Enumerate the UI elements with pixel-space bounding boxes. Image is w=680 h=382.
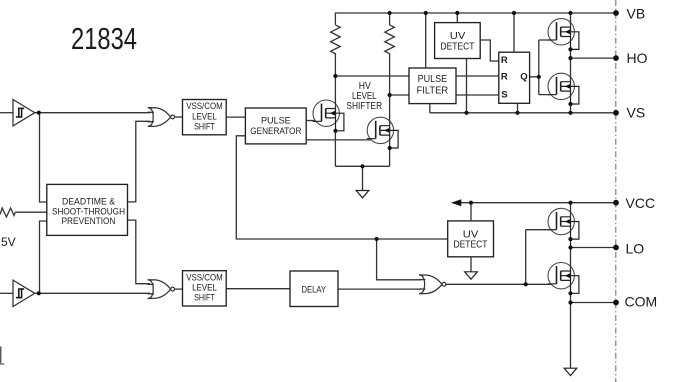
- svg-text:LO: LO: [626, 240, 645, 256]
- wire: 5V resistor to deadtime block: [15, 211, 47, 213]
- resistor R1 (HV level shift load 1): [331, 25, 341, 76]
- wire: Q6 source to COM rail: [570, 293, 572, 302]
- wire: Q4 source to VS rail: [570, 104, 572, 113]
- NOR gate G1: [148, 108, 175, 127]
- wire: VB rail: [335, 13, 616, 25]
- svg-text:21834: 21834: [71, 22, 137, 56]
- ground arrow (HV shifter VSS return): [356, 191, 369, 198]
- wire: U1 output down to deadtime block: [40, 113, 47, 202]
- wire: R2 junction to pulse filter: [390, 94, 409, 96]
- VSS/COM level shift block 1: [183, 100, 227, 135]
- pulse generator block: [245, 108, 306, 144]
- wire: DELAY to NOR G3 input B: [338, 288, 421, 290]
- wire: HO rail: [571, 57, 617, 59]
- node: VCC at UV detect 2: [469, 201, 473, 205]
- node: latch Q split: [537, 75, 541, 79]
- transistor Q1 (HV level shift left): [313, 100, 344, 133]
- node: U2 output junction: [37, 291, 41, 295]
- wire: pulse generator feedback to UV detect 2: [236, 136, 447, 239]
- wire: VB rail to pulse filter top: [425, 13, 427, 68]
- wire: pulse filter to latch S: [456, 94, 499, 96]
- node: R2 drain junction: [388, 93, 392, 97]
- svg-text:PREVENTION: PREVENTION: [62, 216, 116, 226]
- svg-text:SHIFT: SHIFT: [194, 293, 215, 304]
- node: feedback junction to G3: [375, 237, 379, 241]
- node: VS at latch: [515, 111, 519, 115]
- wire: HV shifter common rail: [335, 165, 389, 167]
- wire: VS rail: [430, 112, 616, 114]
- ground arrow (UV detect 2 return): [465, 272, 478, 279]
- node: VB rail at UV detect 1: [455, 11, 459, 15]
- svg-text:R: R: [501, 55, 508, 66]
- node: R1 drain junction: [333, 74, 337, 78]
- node: VB rail at R2: [388, 11, 392, 15]
- wire: latch bottom to VS rail: [517, 103, 519, 113]
- svg-text:Q: Q: [520, 71, 527, 82]
- node: VB rail at pulse filter: [424, 11, 428, 15]
- wire: COM rail: [571, 302, 617, 304]
- transistor Q6 (low-side pull-down): [548, 263, 579, 296]
- wire: HIN input to buffer U1: [0, 112, 13, 114]
- wire: LIN input to buffer U2: [0, 292, 13, 294]
- svg-text:HO: HO: [627, 50, 648, 66]
- node: VS at Q4 source: [568, 111, 572, 115]
- wire: Q1 source down to shifter common: [334, 131, 336, 167]
- wire: Q2 source down to shifter common: [389, 148, 391, 166]
- svg-text:DELAY: DELAY: [302, 285, 327, 296]
- pulse filter block: [409, 68, 456, 104]
- transistor Q3 (high-side pull-up): [548, 19, 579, 52]
- wire: VCC rail to UV detect 2 top: [470, 203, 472, 221]
- VSS/COM level shift block 2: [183, 271, 227, 306]
- wire: Q5 source to LO rail: [570, 239, 572, 247]
- transistor Q4 (high-side pull-down): [548, 73, 579, 106]
- wire: Q3 drain to VB rail: [570, 13, 572, 27]
- svg-text:PULSE: PULSE: [261, 115, 291, 126]
- wire: R1 junction to pulse filter: [335, 75, 409, 77]
- transistor Q2 (HV level shift right): [367, 117, 398, 150]
- svg-text:PULSE: PULSE: [418, 74, 448, 85]
- input buffer U1 (HIN Schmitt trigger): [13, 100, 35, 126]
- edge artifact (cropped glyph at left margin): [0, 347, 2, 364]
- wire: Q4 drain to HO rail: [570, 58, 572, 82]
- wire: Q6 drain to LO rail: [570, 248, 572, 271]
- wire: COM down to ground arrow: [570, 303, 572, 369]
- VCC rail left arrow: [451, 199, 461, 206]
- wire: deadtime block to NOR G2 input A: [128, 220, 151, 284]
- label: HV LEVEL SHIFTER: [346, 80, 382, 112]
- wire: NOR G1 output to VSS/COM level shift 1: [175, 116, 183, 118]
- pin terminal HO: [613, 55, 619, 61]
- svg-text:VB: VB: [627, 5, 646, 21]
- wire: UV detect 1 to latch R input: [480, 40, 499, 61]
- svg-text:DEADTIME &: DEADTIME &: [62, 197, 115, 207]
- ground arrow (COM return): [564, 368, 577, 375]
- wire: U2 output up to deadtime block: [40, 221, 47, 293]
- wire: shifter common down to VSS arrow: [362, 166, 364, 190]
- resistor R pull (5V input): [0, 208, 15, 217]
- IC boundary dash-dot line: [615, 0, 617, 382]
- wire: pulse generator to Q1 gate: [306, 120, 322, 122]
- svg-text:VCC: VCC: [626, 195, 656, 211]
- NOR gate G2: [148, 280, 175, 299]
- wire: pulse generator to Q2 gate: [306, 139, 376, 141]
- node: COM at Q6 source: [568, 300, 572, 304]
- transistor Q5 (low-side pull-up): [548, 208, 579, 241]
- svg-text:SHOOT-THROUGH: SHOOT-THROUGH: [52, 207, 125, 217]
- svg-text:VS: VS: [627, 104, 646, 120]
- pin terminal VCC: [613, 200, 619, 206]
- wire: VB rail to latch top: [513, 13, 515, 52]
- node: VS at UV detect 1: [464, 111, 468, 115]
- pin terminal LO: [613, 245, 619, 251]
- wire: deadtime block to NOR G1 input B: [128, 121, 151, 202]
- svg-text:GENERATOR: GENERATOR: [250, 126, 301, 137]
- wire: feedback junction down to NOR G3 input A: [377, 239, 421, 280]
- RS latch U3: [499, 52, 530, 103]
- pin terminal VS: [613, 110, 619, 116]
- svg-text:SHIFT: SHIFT: [194, 122, 215, 133]
- NOR gate G3: [419, 275, 446, 294]
- wire: Q2 drain up to R2: [389, 95, 391, 126]
- svg-text:DETECT: DETECT: [441, 40, 475, 52]
- pin terminal COM: [613, 300, 619, 306]
- wire: Q3 source to HO rail: [570, 49, 572, 58]
- wire: NOR G3 output to driver gates: [446, 230, 557, 285]
- node: VB rail at Q3 drain: [568, 11, 572, 15]
- node: LO at Q5 source: [568, 245, 572, 249]
- wire: Q5 drain to VCC rail: [570, 203, 572, 217]
- pin terminal VB: [613, 10, 619, 16]
- deadtime block: [47, 184, 128, 235]
- node: HV shifter common junction: [360, 164, 364, 168]
- svg-text:SHIFTER: SHIFTER: [346, 100, 382, 112]
- wire: level shift 1 to pulse generator: [226, 116, 245, 118]
- UV detect block 1 (high side): [435, 23, 481, 59]
- UV detect block 2 (low side): [448, 221, 494, 257]
- wire: pulse filter bottom to VS rail: [429, 104, 431, 113]
- wire: UV detect 1 down to VS rail: [466, 59, 468, 113]
- wire: LO rail: [571, 247, 617, 249]
- wire: latch Q output to driver gates: [530, 40, 557, 95]
- input buffer U2 (LIN Schmitt trigger): [13, 280, 35, 306]
- node: U1 output junction: [37, 111, 41, 115]
- wire: VCC rail: [453, 202, 616, 204]
- svg-text:5V: 5V: [1, 235, 16, 249]
- node: VCC at Q5 drain: [568, 201, 572, 205]
- wire: U2 output to NOR G2 input B: [35, 292, 150, 294]
- wire: NOR G2 output to VSS/COM level shift 2: [175, 288, 183, 290]
- wire: pulse filter to latch R: [456, 75, 499, 77]
- node: G3 output gate split: [524, 282, 528, 286]
- node: VB rail at latch: [512, 11, 516, 15]
- wire: VB rail to UV detect 1 top: [456, 13, 458, 23]
- svg-text:FILTER: FILTER: [417, 85, 449, 96]
- node: HO at Q3 source: [568, 56, 572, 60]
- wire: UV detect 2 down to ground arrow: [470, 257, 472, 272]
- svg-text:S: S: [501, 90, 507, 101]
- delay block: [290, 271, 338, 307]
- resistor R2 (HV level shift load 2): [385, 13, 395, 95]
- svg-text:R: R: [501, 71, 508, 82]
- wire: U1 output to NOR G1 input A: [35, 112, 150, 114]
- svg-text:COM: COM: [625, 293, 658, 309]
- wire: level shift 2 to DELAY: [226, 288, 290, 290]
- wire: Q1 drain up to R1: [334, 76, 336, 109]
- svg-text:DETECT: DETECT: [454, 238, 488, 250]
